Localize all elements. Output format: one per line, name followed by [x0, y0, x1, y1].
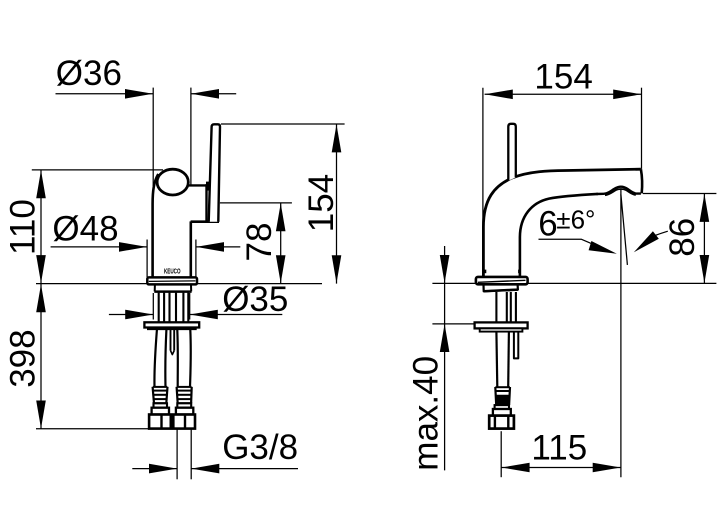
dimension 115 extension line: [500, 431, 502, 477]
mounting bolt side view: [514, 332, 518, 359]
angle leader left: [539, 239, 593, 244]
jet angle 6 degree line: [621, 194, 628, 265]
dimension G3/8 line and arrows: [132, 468, 177, 470]
hose collar side view: [495, 405, 509, 409]
hose crimp section side view: [495, 387, 510, 405]
left hose nut G3/8: [149, 415, 171, 429]
faucet riser inner edge side view: [520, 194, 598, 278]
spout tip edge: [641, 169, 642, 193]
left supply hose front view: [154, 330, 156, 387]
dimension Ø35 extension lines: [152, 293, 154, 320]
dimension max.40 washer extension line: [432, 323, 474, 325]
dimension Ø35 line and arrows: [109, 314, 153, 316]
mounting stud front view: [170, 330, 172, 351]
svg-text:78: 78: [240, 223, 279, 262]
supply hose tube side view: [495, 332, 498, 387]
svg-text:KEUCO: KEUCO: [164, 266, 181, 275]
svg-text:398: 398: [4, 329, 43, 387]
joint tick marks above flange: [484, 270, 486, 274]
cartridge dome ellipse: [157, 169, 188, 195]
dimension 115 line and arrows: [501, 467, 621, 469]
dimension 110/398 vertical line and arrows: [40, 170, 42, 429]
svg-text:±6°: ±6°: [556, 205, 595, 235]
faucet body front view outline: [153, 174, 159, 277]
svg-text:Ø48: Ø48: [52, 210, 118, 249]
dimension Ø48 extension lines: [146, 240, 148, 278]
dimension Ø48 line and arrows: [51, 246, 147, 248]
svg-text:max.40: max.40: [406, 356, 445, 471]
base flange front view: [147, 277, 197, 284]
shank stub front view: [155, 285, 192, 292]
threaded shank lines front view: [158, 293, 160, 323]
dimension 154 right-view line and arrows: [485, 93, 642, 95]
mounting washer side view: [475, 322, 528, 328]
left hose crimp section: [153, 387, 168, 404]
base flange side view: [476, 277, 528, 284]
svg-text:154: 154: [302, 174, 341, 232]
dimension Ø36 line and arrows: [56, 93, 154, 95]
dimension 154 left-view extension line: [221, 123, 345, 125]
dimension max.40 line and arrows: [444, 246, 446, 470]
outlet centerline: [620, 189, 622, 478]
svg-text:115: 115: [531, 428, 587, 467]
shank stub side view: [484, 285, 518, 292]
dimension 154 left-view line and arrows: [336, 124, 338, 284]
svg-text:G3/8: G3/8: [222, 428, 298, 467]
mounting washer front view: [144, 322, 199, 327]
left hose collar: [154, 403, 168, 407]
svg-text:154: 154: [534, 58, 592, 97]
hose nut side view: [489, 416, 514, 429]
svg-text:110: 110: [4, 199, 43, 255]
faucet spout outline side view: [483, 169, 641, 277]
dimension Ø36 extension lines: [152, 88, 154, 186]
right hose nut G3/8: [173, 415, 195, 429]
dimension 86 extension line at outlet: [643, 193, 716, 195]
wire deck surface line left view: [36, 283, 322, 285]
svg-text:Ø36: Ø36: [56, 54, 122, 93]
right hose collar: [177, 403, 191, 407]
dimension 110/398 top extension line: [32, 169, 163, 171]
angle leader right: [656, 231, 668, 235]
dimension G3/8 extension lines: [176, 429, 178, 480]
dimension 78 line and arrows: [280, 203, 282, 284]
dimension 154 right-view extension lines: [482, 88, 484, 242]
handle lug front view: [188, 184, 207, 186]
svg-text:Ø35: Ø35: [222, 280, 288, 319]
dimension 110/398 bottom extension line: [36, 428, 150, 430]
lever handle front view: [209, 124, 220, 222]
hose crimp dark band: [496, 395, 510, 405]
right hose crimp section: [177, 387, 192, 404]
wire deck surface line right view: [432, 282, 716, 284]
lever rod side view: [508, 124, 516, 181]
dimension 78 extension line: [220, 202, 292, 204]
dimension 86 line and arrows: [703, 194, 705, 284]
svg-text:6: 6: [538, 204, 557, 243]
aerator outlet wave: [597, 187, 641, 194]
threaded shank lines side view: [495, 292, 497, 322]
right supply hose front view: [189, 330, 192, 387]
svg-text:86: 86: [663, 218, 702, 257]
